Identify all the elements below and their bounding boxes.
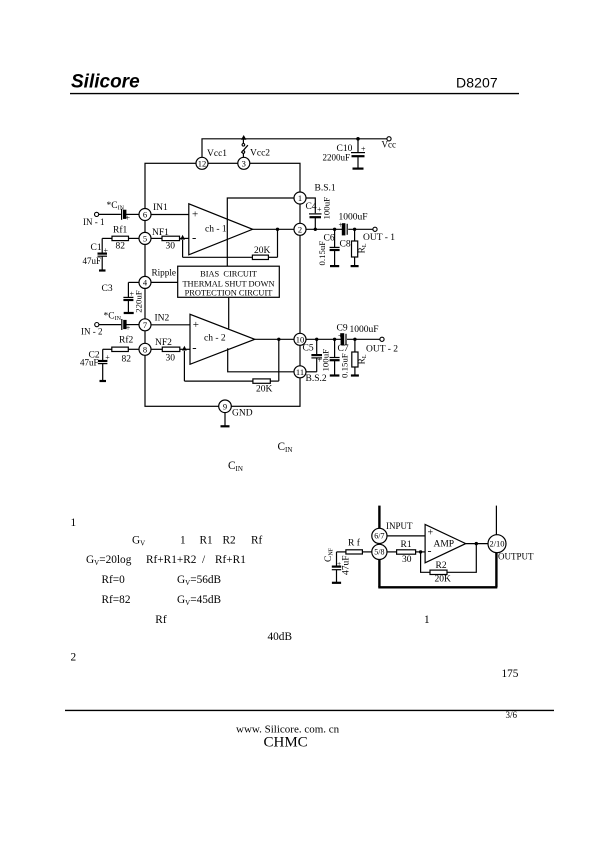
svg-text:R2: R2 <box>436 561 447 571</box>
svg-text:/: / <box>202 554 206 566</box>
svg-text:INPUT: INPUT <box>386 521 413 531</box>
svg-text:C3: C3 <box>102 284 113 294</box>
svg-text:*CIN: *CIN <box>104 312 122 323</box>
svg-text:C8: C8 <box>340 240 351 250</box>
svg-text:6: 6 <box>143 210 147 220</box>
svg-text:2200uF: 2200uF <box>323 153 351 163</box>
svg-text:Rf2: Rf2 <box>119 335 134 346</box>
svg-text:+: + <box>192 209 198 221</box>
svg-text:Vcc: Vcc <box>382 140 397 150</box>
svg-text:5: 5 <box>143 233 147 243</box>
svg-text:Rf+R1: Rf+R1 <box>215 554 246 566</box>
svg-text:OUT - 1: OUT - 1 <box>363 233 395 243</box>
svg-text:AMP: AMP <box>434 539 455 549</box>
svg-text:GV=20log: GV=20log <box>86 554 132 567</box>
svg-text:30: 30 <box>166 241 176 251</box>
svg-text:+: + <box>193 319 199 331</box>
svg-text:+: + <box>428 528 434 539</box>
svg-text:30: 30 <box>166 354 176 364</box>
svg-text:CIN: CIN <box>228 460 243 473</box>
svg-text:+: + <box>317 205 322 214</box>
svg-text:OUT - 2: OUT - 2 <box>366 345 398 355</box>
svg-text:C5: C5 <box>303 343 314 353</box>
svg-text:RL: RL <box>357 243 368 253</box>
svg-text:NF2: NF2 <box>155 338 172 348</box>
svg-text:9: 9 <box>223 401 227 411</box>
svg-text:+: + <box>126 324 131 333</box>
svg-text:GV: GV <box>132 535 145 548</box>
svg-text:RL: RL <box>357 354 368 364</box>
svg-text:IN - 1: IN - 1 <box>83 217 105 227</box>
svg-text:100uF: 100uF <box>322 197 332 220</box>
svg-text:+: + <box>337 559 341 568</box>
svg-text:11: 11 <box>296 367 304 377</box>
svg-text:D8207: D8207 <box>456 75 498 91</box>
svg-text:IN - 2: IN - 2 <box>81 327 103 337</box>
svg-text:CHMC: CHMC <box>264 735 308 751</box>
svg-text:NF1: NF1 <box>152 228 169 238</box>
svg-text:+: + <box>338 331 343 340</box>
svg-text:Silicore: Silicore <box>71 72 140 93</box>
svg-text:C4: C4 <box>306 202 317 212</box>
svg-text:IN1: IN1 <box>153 203 168 213</box>
svg-text:-: - <box>192 230 196 245</box>
svg-text:GND: GND <box>232 409 253 419</box>
svg-text:GV=56dB: GV=56dB <box>177 574 221 587</box>
svg-text:Vcc2: Vcc2 <box>250 149 270 159</box>
svg-text:ch - 1: ch - 1 <box>205 224 227 234</box>
svg-text:Rf=0: Rf=0 <box>102 574 126 586</box>
svg-text:+: + <box>361 145 366 154</box>
svg-text:12: 12 <box>198 158 207 168</box>
svg-text:1000uF: 1000uF <box>350 325 379 335</box>
svg-text:Vcc1: Vcc1 <box>207 149 227 159</box>
svg-text:B.S.1: B.S.1 <box>315 184 336 194</box>
svg-text:Rf: Rf <box>155 614 167 626</box>
svg-text:20K: 20K <box>254 246 271 256</box>
svg-text:-: - <box>428 544 432 558</box>
svg-text:30: 30 <box>402 555 412 565</box>
svg-text:47uF: 47uF <box>80 358 99 368</box>
svg-text:+: + <box>130 289 135 298</box>
svg-text:CNF: CNF <box>324 547 335 562</box>
svg-text:1: 1 <box>298 193 302 203</box>
svg-text:CIN: CIN <box>278 441 293 454</box>
svg-text:8: 8 <box>143 344 147 354</box>
svg-text:+: + <box>126 214 131 223</box>
svg-text:R1: R1 <box>401 540 412 550</box>
svg-text:5/8: 5/8 <box>374 548 384 557</box>
svg-text:+: + <box>339 221 344 230</box>
svg-text:C1: C1 <box>91 243 102 253</box>
svg-text:82: 82 <box>122 355 132 365</box>
svg-text:0.15uF: 0.15uF <box>340 353 350 378</box>
svg-text:Rf: Rf <box>251 535 263 547</box>
svg-text:Ripple: Ripple <box>152 267 177 277</box>
svg-text:2: 2 <box>71 652 77 664</box>
svg-text:1: 1 <box>424 614 430 626</box>
svg-text:2: 2 <box>298 224 302 234</box>
svg-text:GV=45dB: GV=45dB <box>177 594 221 607</box>
svg-text:R1: R1 <box>200 535 213 547</box>
svg-text:Rf=82: Rf=82 <box>102 594 131 606</box>
svg-text:220uF: 220uF <box>133 290 143 313</box>
svg-text:Rf+R1+R2: Rf+R1+R2 <box>146 554 197 566</box>
svg-text:Rf1: Rf1 <box>113 224 128 235</box>
svg-text:20K: 20K <box>256 385 273 395</box>
svg-text:B.S.2: B.S.2 <box>306 374 327 384</box>
svg-text:1: 1 <box>180 535 186 547</box>
svg-text:R2: R2 <box>223 535 237 547</box>
svg-text:82: 82 <box>116 241 126 251</box>
svg-text:0.15uF: 0.15uF <box>317 241 327 266</box>
svg-text:R f: R f <box>348 537 361 548</box>
svg-text:20K: 20K <box>435 574 452 584</box>
svg-text:OUTPUT: OUTPUT <box>498 551 534 561</box>
svg-text:3/6: 3/6 <box>506 710 518 720</box>
svg-text:40dB: 40dB <box>268 631 292 643</box>
svg-text:*CIN: *CIN <box>107 201 125 212</box>
svg-text:-: - <box>192 340 196 355</box>
svg-text:+: + <box>105 353 110 362</box>
svg-text:PROTECTION CIRCUIT: PROTECTION CIRCUIT <box>185 288 273 297</box>
svg-text:47uF: 47uF <box>342 555 352 575</box>
svg-text:+: + <box>318 355 323 364</box>
svg-text:3: 3 <box>242 158 246 168</box>
svg-text:2/10: 2/10 <box>489 539 504 549</box>
svg-text:C7: C7 <box>338 344 349 354</box>
svg-text:THERMAL SHUT DOWN: THERMAL SHUT DOWN <box>182 279 274 288</box>
svg-text:47uF: 47uF <box>83 256 102 266</box>
svg-text:ch - 2: ch - 2 <box>204 334 226 344</box>
svg-text:IN2: IN2 <box>155 314 170 324</box>
svg-text:175: 175 <box>502 668 519 680</box>
svg-text:+: + <box>104 246 109 255</box>
svg-text:7: 7 <box>143 320 147 330</box>
svg-text:BIAS CIRCUIT: BIAS CIRCUIT <box>200 270 257 279</box>
svg-text:6/7: 6/7 <box>374 532 384 541</box>
svg-text:1: 1 <box>71 517 77 529</box>
